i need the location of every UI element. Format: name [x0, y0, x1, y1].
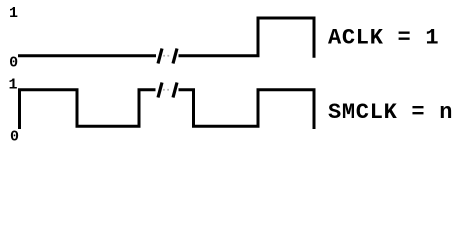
svg-text:0: 0 — [10, 129, 19, 146]
wire ACLK low segment right + pulse — [179, 18, 315, 58]
dotted gap (ACLK break) — [163, 55, 171, 57]
svg-text:0: 0 — [9, 54, 18, 71]
break slash left (SMCLK) — [158, 83, 162, 98]
break slash right (ACLK) — [173, 49, 177, 64]
svg-text:ACLK = 1: ACLK = 1 — [328, 25, 439, 50]
svg-text:1: 1 — [9, 5, 18, 22]
svg-text:SMCLK = n: SMCLK = n — [328, 100, 453, 125]
wire ACLK low segment left — [18, 54, 156, 57]
wire SMCLK right section + pulse — [179, 90, 315, 129]
break slash left (ACLK) — [158, 49, 162, 64]
dotted gap (SMCLK break) — [163, 89, 171, 91]
svg-text:1: 1 — [8, 76, 17, 93]
wire SMCLK left section — [20, 90, 156, 129]
break slash right (SMCLK) — [173, 83, 177, 98]
